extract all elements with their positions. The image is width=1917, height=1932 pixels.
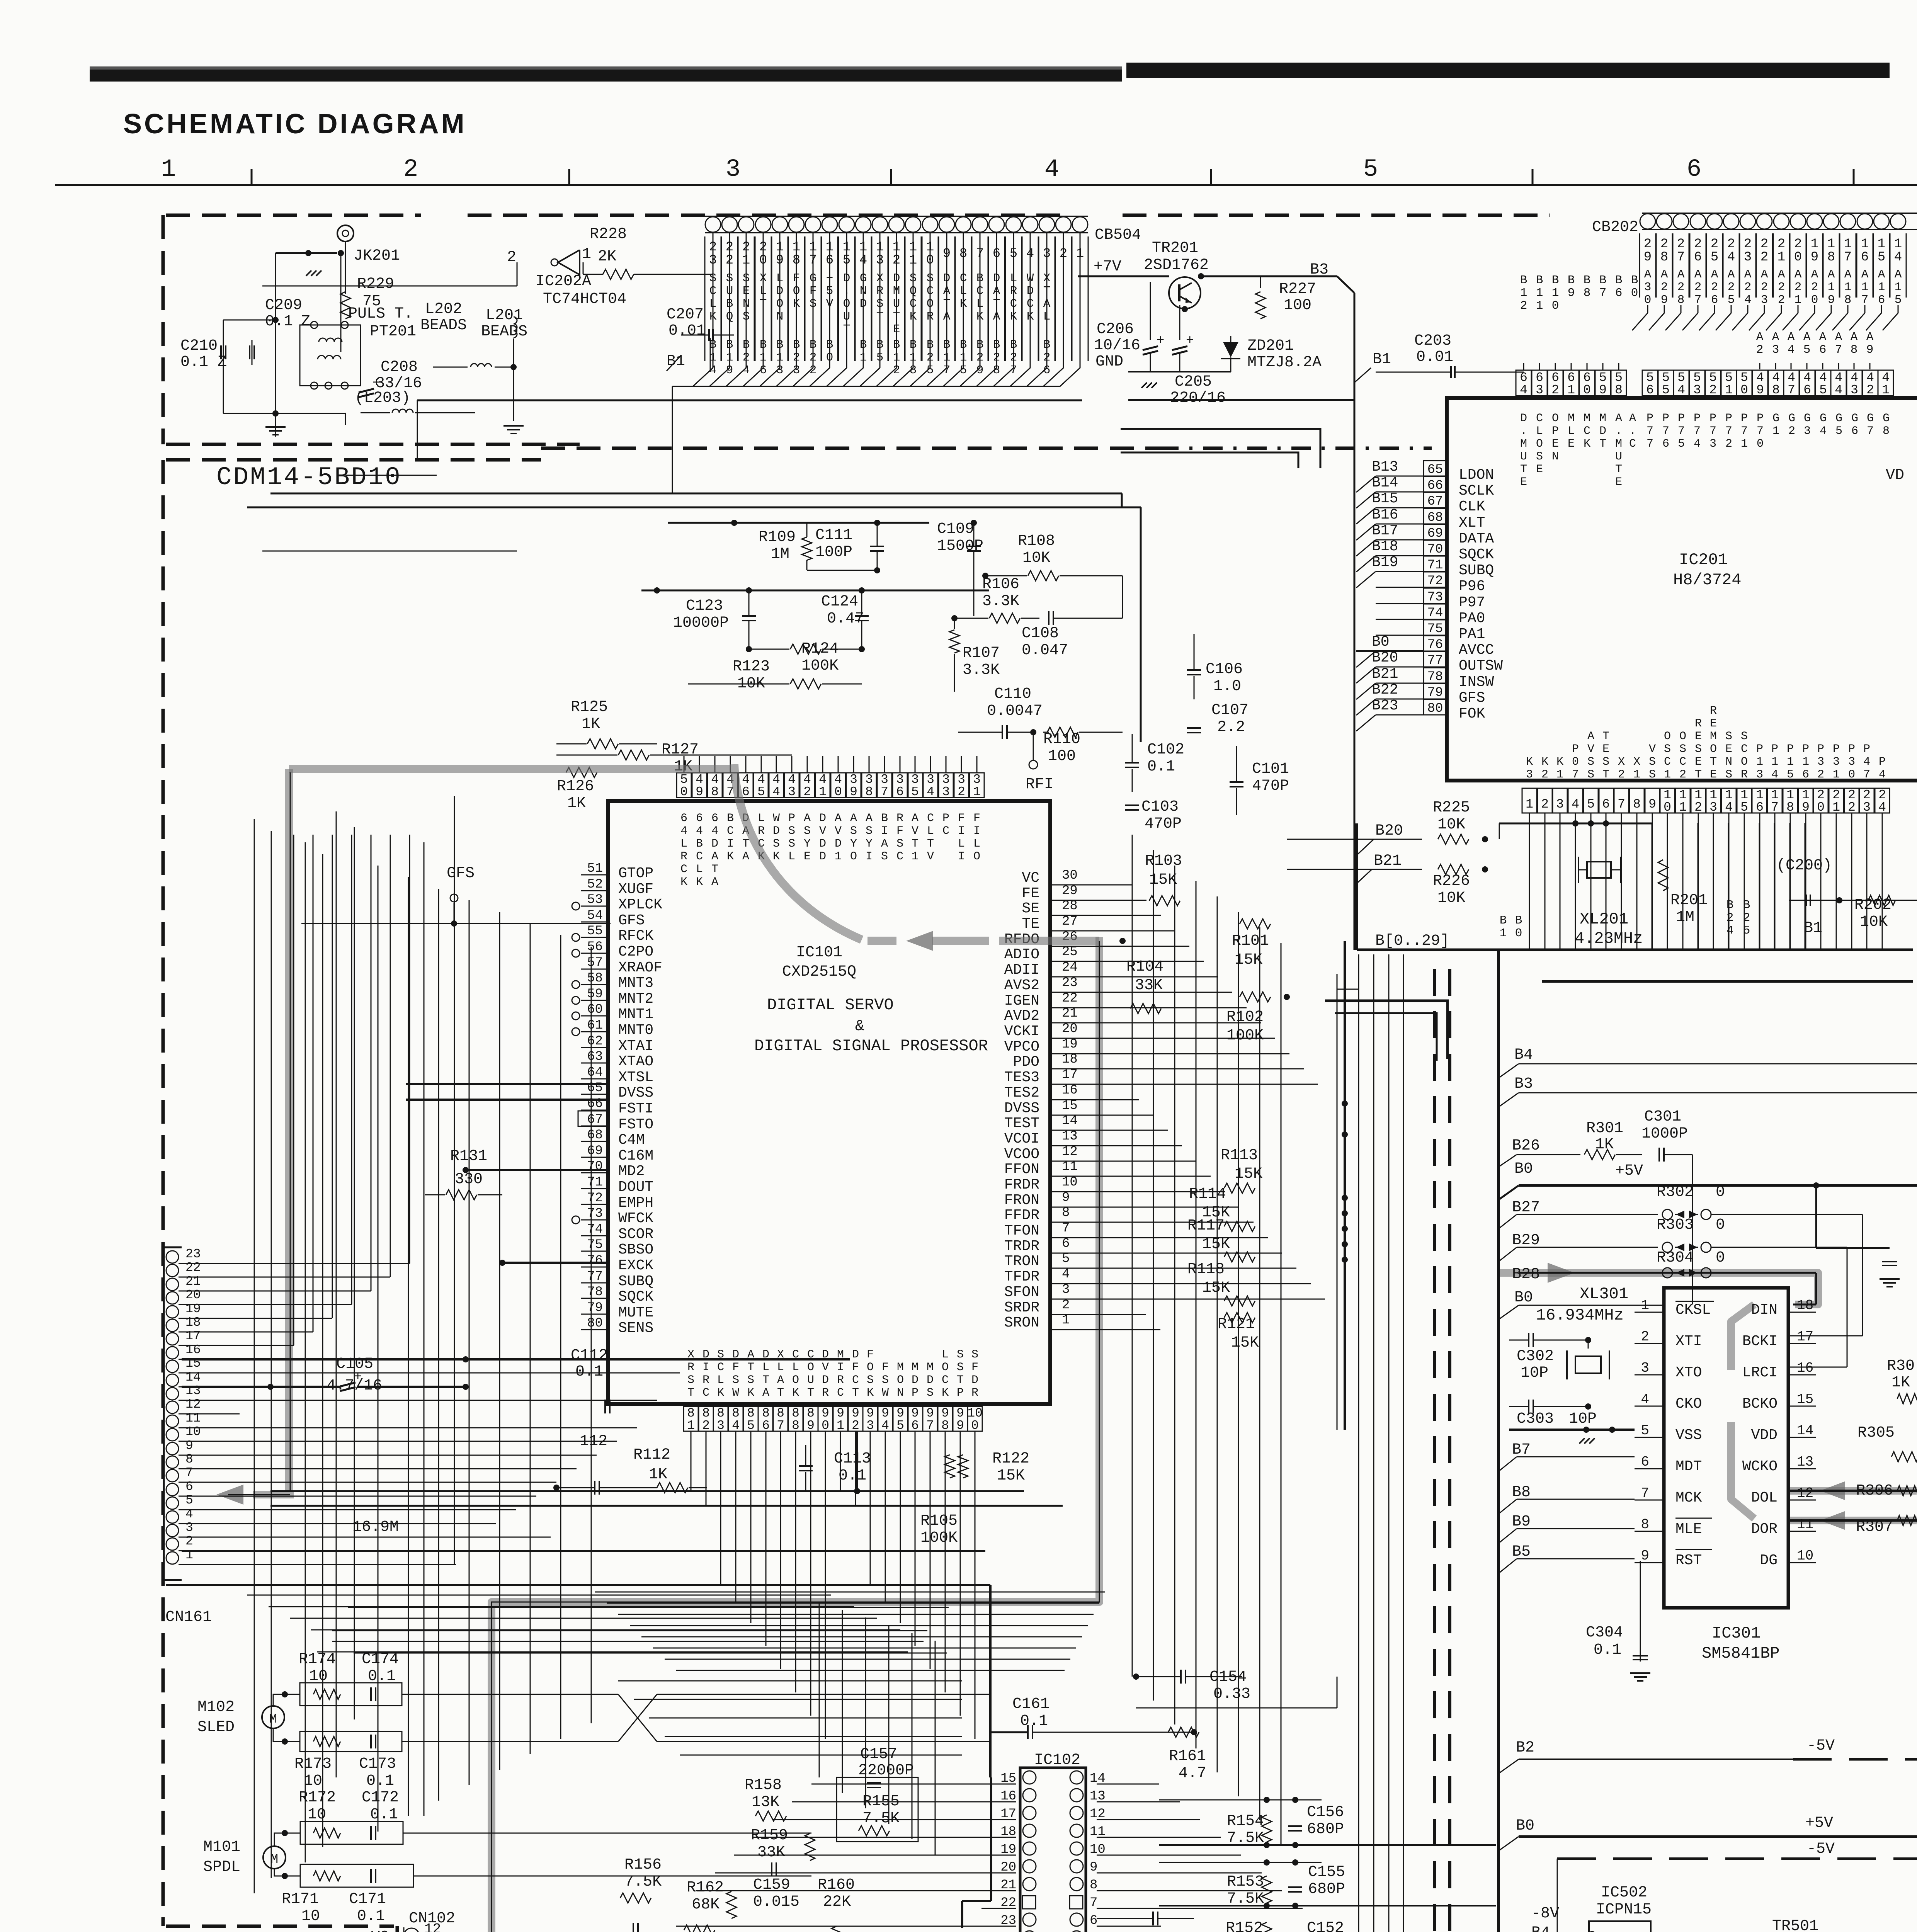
svg-text:S: S <box>1695 743 1702 756</box>
svg-text:1: 1 <box>1861 281 1869 294</box>
svg-text:M102: M102 <box>197 1699 235 1716</box>
svg-text:A: A <box>1644 268 1652 281</box>
svg-text:A: A <box>1803 330 1811 344</box>
svg-text:B0: B0 <box>1514 1160 1533 1178</box>
svg-text:8: 8 <box>1772 383 1780 397</box>
svg-text:69: 69 <box>1427 526 1443 541</box>
svg-text:C304: C304 <box>1586 1624 1623 1641</box>
svg-text:C: C <box>852 1374 859 1387</box>
svg-text:+7V: +7V <box>1094 258 1121 276</box>
svg-text:F: F <box>971 1361 978 1374</box>
svg-text:7: 7 <box>881 785 888 799</box>
svg-text:7: 7 <box>1678 425 1685 438</box>
svg-text:R158: R158 <box>745 1777 782 1794</box>
svg-text:470P: 470P <box>1252 777 1289 795</box>
svg-text:15K: 15K <box>1235 951 1262 969</box>
svg-text:2: 2 <box>403 156 418 184</box>
svg-text:3.3K: 3.3K <box>963 662 1000 679</box>
svg-text:C: C <box>942 825 949 838</box>
svg-text:2: 2 <box>1725 437 1732 451</box>
svg-text:15K: 15K <box>1202 1236 1230 1253</box>
svg-text:V: V <box>912 825 919 838</box>
svg-text:1.0: 1.0 <box>1213 678 1241 695</box>
svg-text:C113: C113 <box>834 1450 871 1468</box>
svg-text:2K: 2K <box>598 248 616 265</box>
svg-text:O: O <box>807 1361 814 1374</box>
svg-text:2: 2 <box>1618 768 1625 781</box>
svg-text:XTAO: XTAO <box>618 1053 653 1070</box>
svg-text:R173: R173 <box>294 1755 332 1773</box>
svg-text:DIN: DIN <box>1751 1302 1778 1318</box>
svg-text:P: P <box>1552 425 1559 438</box>
svg-text:D: D <box>1599 425 1606 438</box>
svg-text:T: T <box>711 863 718 876</box>
svg-text:C301: C301 <box>1644 1108 1681 1126</box>
svg-text:C16M: C16M <box>618 1148 653 1164</box>
svg-text:A: A <box>711 876 718 889</box>
svg-text:O: O <box>1664 730 1671 743</box>
svg-text:R: R <box>758 825 765 838</box>
svg-text:C103: C103 <box>1141 798 1179 816</box>
svg-text:8: 8 <box>1827 250 1835 265</box>
svg-text:3: 3 <box>1851 383 1858 397</box>
svg-text:E: E <box>1520 476 1527 489</box>
svg-text:0: 0 <box>834 785 842 799</box>
svg-text:C: C <box>696 850 703 863</box>
svg-text:R: R <box>1741 768 1748 781</box>
svg-text:3: 3 <box>942 785 950 799</box>
svg-text:MNT1: MNT1 <box>618 1006 653 1023</box>
svg-text:SLED: SLED <box>197 1719 235 1736</box>
svg-text:9: 9 <box>850 785 857 799</box>
svg-text:BEADS: BEADS <box>420 317 467 334</box>
svg-text:B: B <box>1520 274 1527 287</box>
svg-text:K: K <box>867 1386 874 1400</box>
svg-text:1: 1 <box>912 850 919 863</box>
svg-text:71: 71 <box>1427 558 1443 573</box>
svg-text:S: S <box>1587 755 1594 769</box>
svg-text:R112: R112 <box>633 1446 670 1464</box>
svg-text:10K: 10K <box>1437 816 1465 833</box>
svg-text:0.1: 0.1 <box>366 1772 394 1790</box>
svg-text:C: C <box>703 1386 709 1400</box>
svg-text:R154: R154 <box>1227 1813 1264 1830</box>
svg-text:G: G <box>1835 412 1842 425</box>
svg-text:C124: C124 <box>821 593 858 611</box>
svg-text:78: 78 <box>587 1285 603 1299</box>
svg-text:3: 3 <box>185 1520 193 1535</box>
svg-text:K: K <box>792 1386 799 1400</box>
svg-text:C: C <box>927 812 934 825</box>
svg-text:7: 7 <box>1863 768 1870 781</box>
svg-text:3: 3 <box>1772 343 1779 357</box>
svg-text:5: 5 <box>1878 250 1885 265</box>
svg-text:S: S <box>788 825 795 838</box>
svg-text:4: 4 <box>732 1418 740 1433</box>
svg-text:B1: B1 <box>1373 351 1391 368</box>
svg-text:1: 1 <box>687 1418 695 1433</box>
svg-text:16: 16 <box>185 1343 201 1357</box>
svg-text:8: 8 <box>1615 383 1623 397</box>
svg-text:V: V <box>927 850 934 863</box>
svg-text:MNT0: MNT0 <box>618 1022 653 1039</box>
svg-text:C172: C172 <box>362 1789 399 1806</box>
svg-text:S: S <box>1649 768 1656 781</box>
svg-text:L: L <box>1536 425 1543 438</box>
svg-text:1: 1 <box>1633 768 1640 781</box>
svg-text:C107: C107 <box>1211 702 1249 719</box>
svg-text:TFDR: TFDR <box>1004 1269 1039 1285</box>
svg-text:8: 8 <box>792 1418 799 1433</box>
svg-text:B21: B21 <box>1374 852 1402 870</box>
svg-text:VD: VD <box>1886 467 1904 484</box>
svg-text:B7: B7 <box>1512 1441 1531 1459</box>
svg-text:O: O <box>897 1374 904 1387</box>
svg-text:S: S <box>882 1374 889 1387</box>
svg-text:V: V <box>819 825 826 838</box>
svg-text:IC202A: IC202A <box>536 273 591 290</box>
svg-text:K: K <box>1541 755 1548 769</box>
svg-text:1: 1 <box>1833 768 1840 781</box>
svg-text:E: E <box>1615 476 1622 489</box>
svg-text:P: P <box>1647 412 1653 425</box>
svg-text:B3: B3 <box>1514 1075 1533 1093</box>
svg-text:R126: R126 <box>557 778 594 795</box>
svg-text:S: S <box>957 1361 964 1374</box>
svg-text:100K: 100K <box>1226 1027 1264 1044</box>
svg-text:6: 6 <box>185 1480 193 1494</box>
svg-text:4: 4 <box>1726 924 1734 937</box>
svg-text:2: 2 <box>1778 237 1785 252</box>
svg-text:C303: C303 <box>1517 1410 1554 1428</box>
svg-text:V: V <box>1649 743 1656 756</box>
svg-text:K: K <box>1584 437 1590 451</box>
svg-text:S: S <box>896 837 903 850</box>
svg-text:18: 18 <box>185 1315 201 1330</box>
svg-text:5: 5 <box>896 1418 904 1433</box>
svg-text:BEADS: BEADS <box>481 323 527 340</box>
svg-text:IGEN: IGEN <box>1004 993 1039 1009</box>
svg-text:6: 6 <box>911 1418 919 1433</box>
svg-text:68: 68 <box>587 1128 603 1143</box>
svg-text:L: L <box>777 1361 784 1374</box>
svg-text:B29: B29 <box>1512 1232 1540 1249</box>
svg-text:U: U <box>1615 450 1622 463</box>
svg-text:5: 5 <box>1587 797 1595 811</box>
svg-text:A: A <box>711 850 718 863</box>
svg-text:4.23MHz: 4.23MHz <box>1575 929 1643 948</box>
svg-text:BCKI: BCKI <box>1742 1333 1778 1350</box>
svg-text:6: 6 <box>1861 250 1869 265</box>
svg-text:79: 79 <box>1427 685 1443 700</box>
svg-text:69: 69 <box>587 1144 603 1158</box>
svg-text:51: 51 <box>587 861 603 876</box>
svg-text:8: 8 <box>1584 286 1591 300</box>
svg-text:9: 9 <box>807 1418 815 1433</box>
svg-text:-5V: -5V <box>1807 1737 1835 1755</box>
svg-text:A: A <box>777 1374 784 1387</box>
svg-text:73: 73 <box>1427 590 1443 605</box>
svg-text:0.01: 0.01 <box>668 322 706 340</box>
svg-text:L: L <box>958 837 965 850</box>
svg-text:77: 77 <box>1427 653 1443 668</box>
svg-text:A: A <box>1895 268 1902 281</box>
svg-text:R174: R174 <box>299 1651 336 1668</box>
svg-text:3: 3 <box>1833 755 1840 769</box>
svg-text:R117: R117 <box>1187 1217 1225 1235</box>
svg-text:2: 2 <box>1711 281 1718 294</box>
svg-text:H8/3724: H8/3724 <box>1673 571 1741 589</box>
svg-text:S: S <box>1725 768 1732 781</box>
svg-text:K: K <box>696 876 703 889</box>
svg-text:K: K <box>747 1386 754 1400</box>
svg-text:9: 9 <box>1062 1190 1070 1205</box>
svg-text:C: C <box>1629 437 1636 451</box>
svg-text:A: A <box>1587 730 1594 743</box>
svg-text:INSW: INSW <box>1459 674 1494 690</box>
svg-text:XTO: XTO <box>1675 1364 1702 1381</box>
svg-text:RST: RST <box>1675 1552 1702 1569</box>
svg-text:1: 1 <box>1882 383 1890 397</box>
svg-text:74: 74 <box>587 1222 603 1237</box>
svg-text:6: 6 <box>1711 293 1718 307</box>
svg-text:R226: R226 <box>1433 872 1470 890</box>
svg-text:I: I <box>837 1361 844 1374</box>
svg-text:4: 4 <box>1894 250 1902 265</box>
svg-text:10K: 10K <box>1022 549 1050 567</box>
svg-text:B: B <box>1631 274 1638 287</box>
svg-text:F: F <box>852 1361 859 1374</box>
svg-text:C161: C161 <box>1012 1696 1050 1713</box>
svg-text:3: 3 <box>1804 425 1811 438</box>
svg-text:B18: B18 <box>1372 538 1398 555</box>
svg-text:1: 1 <box>1536 286 1543 300</box>
svg-text:SCHEMATIC DIAGRAM: SCHEMATIC DIAGRAM <box>123 109 467 139</box>
svg-text:9: 9 <box>1828 293 1835 307</box>
svg-text:5: 5 <box>1803 343 1811 357</box>
svg-text:1K: 1K <box>582 716 600 733</box>
svg-text:SQCK: SQCK <box>618 1289 653 1305</box>
svg-text:9: 9 <box>1090 1860 1097 1875</box>
svg-text:P: P <box>1756 743 1763 756</box>
svg-text:1: 1 <box>1664 768 1671 781</box>
svg-text:JK201: JK201 <box>354 247 400 265</box>
svg-text:FRON: FRON <box>1004 1192 1039 1209</box>
svg-text:0.1: 0.1 <box>265 313 293 330</box>
svg-text:RFCK: RFCK <box>618 928 653 944</box>
svg-text:S: S <box>927 1386 934 1400</box>
svg-text:A: A <box>1677 268 1685 281</box>
svg-text:1: 1 <box>1520 286 1527 300</box>
svg-text:R201: R201 <box>1670 892 1708 909</box>
svg-text:2: 2 <box>1728 281 1735 294</box>
svg-text:2: 2 <box>803 785 811 799</box>
svg-text:C106: C106 <box>1206 661 1243 678</box>
svg-text:A: A <box>850 812 857 825</box>
svg-text:1: 1 <box>835 850 842 863</box>
svg-text:A: A <box>1744 268 1752 281</box>
svg-text:1: 1 <box>161 156 176 184</box>
svg-text:12: 12 <box>1797 1485 1813 1501</box>
svg-text:2: 2 <box>1744 237 1752 252</box>
svg-text:T: T <box>1602 768 1609 781</box>
svg-text:CLK: CLK <box>1459 498 1485 515</box>
svg-text:7: 7 <box>1867 425 1874 438</box>
svg-text:5: 5 <box>1363 156 1378 184</box>
svg-text:T: T <box>912 837 919 850</box>
svg-text:C173: C173 <box>359 1755 396 1773</box>
svg-text:0.047: 0.047 <box>1022 642 1068 659</box>
svg-text:1: 1 <box>1062 1313 1070 1328</box>
svg-text:1: 1 <box>1844 237 1852 252</box>
svg-text:0.1: 0.1 <box>1020 1713 1048 1730</box>
svg-text:DIGITAL SIGNAL PROSESSOR: DIGITAL SIGNAL PROSESSOR <box>754 1037 988 1055</box>
svg-text:SPDL: SPDL <box>203 1859 240 1876</box>
svg-text:C: C <box>942 1374 949 1387</box>
svg-text:R306: R306 <box>1856 1482 1893 1500</box>
svg-text:0: 0 <box>1716 1184 1725 1201</box>
svg-text:S: S <box>1679 743 1686 756</box>
svg-text:11: 11 <box>1797 1517 1813 1532</box>
svg-text:10/16: 10/16 <box>1094 337 1140 354</box>
svg-text:61: 61 <box>587 1018 603 1033</box>
svg-text:1K: 1K <box>1891 1374 1910 1391</box>
svg-text:I: I <box>973 825 980 838</box>
svg-text:B17: B17 <box>1372 522 1398 539</box>
svg-text:0.0047: 0.0047 <box>987 702 1043 720</box>
svg-text:9: 9 <box>1568 286 1575 300</box>
svg-text:21: 21 <box>1062 1006 1078 1021</box>
svg-text:6: 6 <box>1687 156 1701 184</box>
svg-text:A: A <box>742 850 749 863</box>
svg-text:CB202: CB202 <box>1592 219 1638 236</box>
svg-text:7: 7 <box>1090 1896 1097 1910</box>
svg-text:6: 6 <box>1803 383 1811 397</box>
svg-text:C302: C302 <box>1517 1348 1554 1365</box>
svg-text:A: A <box>1728 268 1735 281</box>
svg-text:28: 28 <box>1062 899 1078 913</box>
svg-text:2: 2 <box>1726 911 1734 925</box>
svg-text:19: 19 <box>185 1302 201 1316</box>
svg-text:14: 14 <box>185 1370 201 1384</box>
svg-text:1: 1 <box>1536 299 1543 313</box>
svg-text:F: F <box>973 812 980 825</box>
svg-text:B: B <box>1552 274 1559 287</box>
svg-text:I: I <box>958 825 965 838</box>
svg-text:2: 2 <box>1761 250 1768 265</box>
svg-text:100K: 100K <box>920 1529 958 1547</box>
svg-text:SE: SE <box>1022 900 1039 917</box>
svg-text:3: 3 <box>1062 1282 1070 1297</box>
svg-text:9: 9 <box>1599 383 1607 397</box>
svg-text:SCLK: SCLK <box>1459 483 1494 499</box>
svg-text:23: 23 <box>1062 976 1078 990</box>
svg-text:8: 8 <box>1641 1517 1649 1532</box>
svg-text:M: M <box>1568 412 1575 425</box>
svg-text:2: 2 <box>1744 281 1752 294</box>
svg-text:R161: R161 <box>1169 1748 1206 1765</box>
svg-text:+5V: +5V <box>1805 1815 1833 1832</box>
svg-text:9: 9 <box>1641 1548 1649 1564</box>
svg-text:3: 3 <box>1644 281 1652 294</box>
svg-text:Z: Z <box>301 313 310 330</box>
svg-text:K: K <box>717 1386 724 1400</box>
svg-text:S: S <box>773 837 780 850</box>
svg-text:P: P <box>1694 412 1701 425</box>
svg-text:2: 2 <box>1660 237 1668 252</box>
svg-text:AVCC: AVCC <box>1459 642 1494 658</box>
svg-text:L: L <box>788 850 795 863</box>
svg-text:XUGF: XUGF <box>618 881 653 898</box>
svg-text:10: 10 <box>308 1806 326 1823</box>
svg-text:2: 2 <box>1541 768 1548 781</box>
svg-text:FSTO: FSTO <box>618 1116 653 1133</box>
svg-text:C206: C206 <box>1097 321 1134 338</box>
svg-text:SFON: SFON <box>1004 1284 1039 1301</box>
svg-text:0.1: 0.1 <box>575 1363 603 1381</box>
svg-text:C109: C109 <box>937 520 974 538</box>
svg-text:10: 10 <box>304 1772 322 1790</box>
svg-text:8: 8 <box>711 785 719 799</box>
svg-text:M: M <box>269 1712 277 1727</box>
svg-text:R162: R162 <box>687 1879 724 1896</box>
svg-text:FFDR: FFDR <box>1004 1207 1039 1224</box>
svg-text:P: P <box>1848 743 1855 756</box>
svg-text:20: 20 <box>185 1288 201 1302</box>
svg-text:R156: R156 <box>624 1856 662 1874</box>
svg-text:6: 6 <box>1641 1454 1649 1470</box>
svg-text:4: 4 <box>1694 437 1701 451</box>
svg-text:1: 1 <box>1741 437 1748 451</box>
svg-text:9: 9 <box>1648 797 1656 811</box>
svg-text:R229: R229 <box>357 276 394 293</box>
svg-text:VCKI: VCKI <box>1004 1023 1039 1040</box>
svg-text:&: & <box>855 1018 864 1035</box>
svg-text:0: 0 <box>822 1418 829 1433</box>
svg-text:3: 3 <box>788 785 796 799</box>
svg-text:6: 6 <box>1878 293 1885 307</box>
svg-text:9: 9 <box>1866 343 1874 357</box>
svg-text:5: 5 <box>185 1493 193 1507</box>
svg-text:3: 3 <box>1693 383 1701 397</box>
svg-text:C110: C110 <box>994 685 1031 703</box>
svg-text:R131: R131 <box>450 1148 487 1165</box>
svg-text:80: 80 <box>1427 701 1443 716</box>
svg-text:R: R <box>703 1374 709 1387</box>
svg-text:CKO: CKO <box>1675 1396 1702 1412</box>
svg-text:0: 0 <box>1515 927 1522 940</box>
svg-text:A: A <box>1694 268 1702 281</box>
svg-text:(L203): (L203) <box>355 389 410 407</box>
svg-text:R101: R101 <box>1232 932 1269 950</box>
svg-text:1: 1 <box>1778 250 1785 265</box>
svg-text:S: S <box>804 825 811 838</box>
svg-text:C156: C156 <box>1307 1804 1344 1821</box>
svg-text:15K: 15K <box>1202 1279 1230 1297</box>
svg-text:5: 5 <box>757 785 765 799</box>
svg-text:LDON: LDON <box>1459 467 1494 483</box>
svg-text:G: G <box>1851 412 1858 425</box>
svg-text:Y: Y <box>866 837 873 850</box>
svg-text:O: O <box>942 1361 949 1374</box>
svg-text:10K: 10K <box>1860 913 1888 931</box>
svg-text:79: 79 <box>587 1301 603 1315</box>
svg-text:L: L <box>680 837 687 850</box>
svg-text:2: 2 <box>1761 237 1768 252</box>
svg-text:27: 27 <box>1062 914 1078 929</box>
svg-text:E: E <box>1552 437 1559 451</box>
svg-text:CXD2515Q: CXD2515Q <box>782 963 856 981</box>
